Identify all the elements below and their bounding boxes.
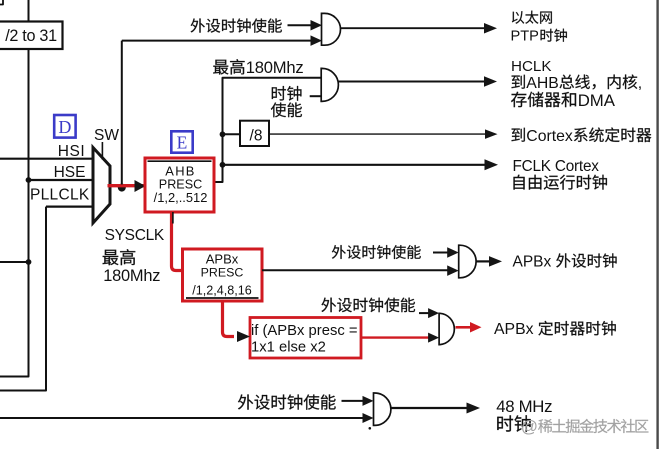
svg-text:/1,2,..512: /1,2,..512 [154, 190, 208, 205]
label memory and DMA [511, 92, 576, 107]
wire red APBx PRESC down to if box [223, 301, 235, 337]
svg-text:HSI: HSI [58, 143, 85, 160]
svg-text:180Mhz: 180Mhz [246, 58, 304, 77]
wire 48MHz output [391, 407, 467, 409]
svg-text:PLLCLK: PLLCLK [30, 187, 90, 204]
svg-text:180Mhz: 180Mhz [103, 267, 160, 285]
svg-text:/2 to 31: /2 to 31 [5, 27, 57, 45]
label clock enable (clk) [272, 86, 302, 101]
svg-text:HCLK: HCLK [511, 58, 552, 75]
svg-text:HSE: HSE [54, 164, 86, 181]
AND gate U2 HCLK [321, 68, 338, 101]
wire /8 output to Cortex timer [269, 133, 486, 135]
wire to PTP gate lower input [122, 40, 311, 42]
mux select pin [101, 142, 103, 160]
box APBx PRESC (red) [183, 249, 263, 301]
node on HSE branch y180 [26, 177, 32, 183]
svg-text:Cortex: Cortex [526, 128, 573, 145]
wire HSE input [29, 179, 94, 181]
wire APBx peripheral clock [262, 269, 449, 271]
wire PLLCLK vertical to left edge [0, 207, 46, 391]
stray dot [369, 427, 372, 430]
wire SYSCLK red from mux to AHB PRESC [108, 184, 145, 187]
svg-text:/1,2,4,8,16: /1,2,4,8,16 [192, 284, 252, 298]
label peripheral clock enable #4 [238, 394, 336, 409]
svg-text:1x1 else x2: 1x1 else x2 [251, 339, 326, 355]
divider box /8 [223, 133, 241, 135]
label peripheral clock enable #2 [332, 245, 421, 259]
wire APBx timer clock output (red) [456, 326, 472, 329]
arrowhead into AHB PRESC [135, 180, 146, 192]
wire enable to 48MHz gate upper input [342, 400, 364, 402]
watermark juejin [521, 417, 538, 436]
wire red AHB PRESC to APBx PRESC [172, 212, 183, 271]
svg-text:PRESC: PRESC [201, 265, 244, 279]
wire HSI input [0, 158, 93, 160]
AND gate U4 APBx timer [439, 313, 454, 344]
label clock enable (en) [271, 102, 302, 117]
svg-text:SW: SW [94, 127, 119, 144]
AND gate U3 APBx peripheral [459, 245, 476, 278]
wire HSE divider vertical from top [28, 0, 30, 22]
wire enable to HCLK gate lower input [310, 95, 322, 97]
AND gate U1 ethernet PTP [322, 13, 341, 45]
node on left branch y262 [26, 259, 32, 265]
wire red if box to timer gate lower input [361, 336, 429, 338]
label to AHB bus, core [511, 75, 524, 89]
svg-text:E: E [177, 133, 188, 153]
svg-text:FCLK Cortex: FCLK Cortex [513, 158, 600, 175]
label free running clock [513, 175, 606, 190]
label peripheral clock enable #1 [191, 18, 282, 32]
wire PLLCLK input [46, 206, 93, 208]
wire FCLK output [223, 164, 485, 166]
wire stub below AHB PRESC (black) [172, 212, 174, 224]
wire HCLK output [338, 81, 484, 83]
box AHB PRESC (red) [145, 158, 214, 212]
label E (blue) [171, 131, 192, 152]
svg-text:,: , [638, 75, 642, 92]
wire stub to left edge y262 [0, 261, 29, 263]
node FCLK tap [220, 162, 226, 168]
wire enable to PTP gate upper input [288, 24, 312, 26]
svg-text:AHB: AHB [165, 163, 195, 178]
svg-text:D: D [58, 117, 71, 137]
mux SW (clock switch) [93, 148, 110, 224]
svg-text:DMA: DMA [578, 91, 616, 110]
label D (blue) [54, 115, 75, 138]
label peripheral clock enable #3 [321, 298, 415, 313]
label ethernet PTP clock [512, 11, 552, 24]
arrowhead into if box [237, 331, 250, 342]
wire HCLK from AHB PRESC up to HCLK gate [214, 78, 321, 182]
svg-text:if (APBx presc =: if (APBx presc = [251, 323, 358, 339]
svg-text:SYSCLK: SYSCLK [105, 227, 165, 244]
svg-text:PTP: PTP [511, 29, 539, 45]
wire HSE divider vertical below box [0, 49, 29, 377]
node SYSCLK junction on red wire [118, 184, 126, 192]
svg-text:APBx: APBx [494, 321, 534, 338]
black bottom edge of APBx PRESC [186, 297, 259, 299]
svg-text:APBx: APBx [513, 253, 552, 270]
label to Cortex system timer [511, 128, 524, 142]
label max 180Mhz [213, 59, 244, 74]
wire long input from left edge [0, 417, 364, 419]
node /8 tap [220, 131, 226, 137]
label clock (zh) [497, 415, 530, 432]
svg-text:AHB: AHB [526, 75, 558, 92]
label max (zh) [103, 249, 136, 265]
right border [656, 0, 658, 449]
box if APBx presc (red) [250, 318, 361, 359]
wire top-left corner stub [0, 0, 3, 5]
wire enable to APBx gate upper input [433, 252, 449, 254]
svg-text:APBx: APBx [206, 252, 239, 267]
svg-text:@: @ [521, 417, 538, 436]
wire APBx peripheral clock output [476, 260, 490, 262]
svg-text:/8: /8 [250, 128, 263, 145]
wire SYSCLK up to ethernet PTP gate [121, 41, 123, 185]
wire PTP clock output [341, 27, 485, 29]
wire enable to timer gate upper input [419, 312, 429, 314]
divider box /2 to 31 [0, 22, 63, 50]
svg-text:48 MHz: 48 MHz [496, 397, 552, 416]
AND gate U5 48MHz [374, 393, 391, 425]
